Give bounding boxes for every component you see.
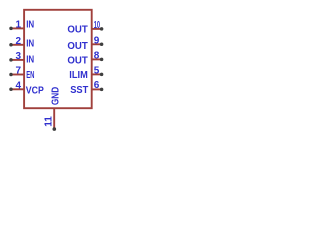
svg-text:OUT: OUT	[67, 25, 87, 36]
wire pin8	[92, 58, 102, 60]
wire pin4	[11, 88, 24, 90]
node pin10	[100, 27, 104, 31]
svg-text:GND: GND	[50, 87, 61, 105]
svg-text:8: 8	[94, 51, 100, 62]
svg-text:9: 9	[94, 35, 100, 46]
node pin4	[9, 88, 13, 92]
op-amp U1 body	[24, 10, 92, 108]
svg-text:IN: IN	[26, 20, 34, 31]
svg-text:10: 10	[94, 20, 101, 31]
wire pin10	[92, 28, 102, 30]
node pin2	[9, 43, 13, 47]
node pin5	[100, 73, 104, 77]
svg-text:11: 11	[43, 116, 54, 127]
node pin7	[9, 73, 13, 77]
wire pin6	[92, 88, 102, 90]
svg-text:IN: IN	[26, 38, 34, 49]
svg-text:5: 5	[94, 66, 100, 77]
node pin6	[100, 88, 104, 92]
node pin9	[100, 43, 104, 47]
node pin3	[9, 58, 13, 62]
svg-text:1: 1	[15, 20, 21, 31]
svg-text:6: 6	[94, 80, 100, 91]
wire pin5	[92, 73, 102, 75]
wire pin2	[11, 44, 24, 46]
svg-text:VCP: VCP	[26, 86, 44, 97]
wire pin11 GND	[53, 108, 55, 129]
svg-text:ILIM: ILIM	[69, 70, 88, 81]
wire pin1	[11, 27, 24, 29]
node pin11	[53, 127, 57, 131]
node pin1	[9, 27, 13, 31]
svg-text:3: 3	[15, 51, 21, 62]
svg-text:SST: SST	[70, 85, 88, 96]
node pin8	[100, 58, 104, 62]
svg-text:4: 4	[15, 81, 21, 92]
wire pin7	[11, 74, 24, 76]
svg-text:OUT: OUT	[67, 41, 87, 52]
svg-text:2: 2	[15, 36, 21, 47]
svg-text:EN: EN	[26, 70, 34, 81]
wire pin3	[11, 59, 24, 61]
svg-text:OUT: OUT	[67, 56, 87, 67]
svg-text:IN: IN	[26, 54, 34, 65]
wire pin9	[92, 43, 102, 45]
svg-text:7: 7	[15, 66, 21, 77]
